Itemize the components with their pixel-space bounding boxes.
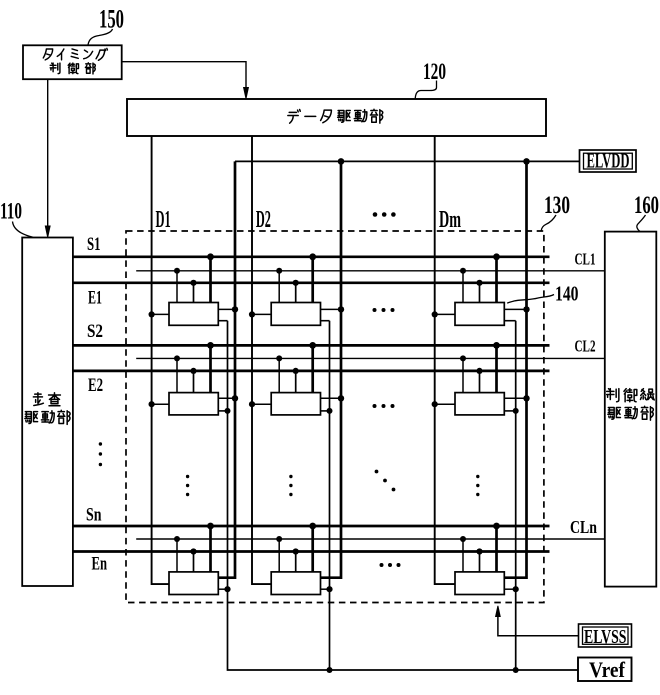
wire pixel 2m to Vref line xyxy=(504,410,515,412)
node pixel n1 on Vref line xyxy=(224,586,230,592)
wire pixel 12 to CL xyxy=(278,271,280,303)
wire pixel 1m to data line xyxy=(435,313,455,315)
vertical ellipsis scan rows xyxy=(99,442,102,466)
text seigyobu (control part) xyxy=(50,63,95,74)
text taimingu (timing) xyxy=(43,48,107,60)
node pixel 1m on CL xyxy=(460,268,466,274)
wire pixel n2 to Vref line xyxy=(321,588,330,590)
ELVDD power line column 2 xyxy=(321,161,342,577)
pixel circuit pixel 1m box xyxy=(455,303,504,326)
svg-text:Dm: Dm xyxy=(439,207,461,233)
svg-text:D2: D2 xyxy=(256,207,271,233)
wire pixel 21 to ELVDD line xyxy=(218,397,235,399)
node pixel 21 on Vref line xyxy=(225,408,231,414)
wire pixel 1m to CL xyxy=(462,271,464,303)
ellipsis pixels row 1 xyxy=(373,308,395,312)
wire pixel n2 to S line xyxy=(311,526,314,572)
arrowhead into scan driver xyxy=(45,226,50,237)
wire pixel 12 to S line xyxy=(311,257,314,303)
wire pixel n1 to Vref line xyxy=(218,588,227,590)
wire pixel 21 to CL xyxy=(176,358,178,392)
wire pixel nm to Vref line xyxy=(504,588,515,590)
scan line S2 xyxy=(73,344,550,347)
pixel array dashed box 130 xyxy=(126,231,544,603)
wire pixel 2m to ELVDD line xyxy=(504,397,526,399)
node pixel 2m on ELVDD line xyxy=(523,395,529,401)
svg-text:E1: E1 xyxy=(88,288,102,309)
node pixel 22 on CL xyxy=(276,355,282,361)
svg-text:ELVSS: ELVSS xyxy=(584,626,627,648)
ellipsis between D2 and Dm xyxy=(373,212,396,217)
node pixel 21 on CL xyxy=(174,355,180,361)
leader for 160 xyxy=(637,215,646,231)
node pixel 1m on S line xyxy=(493,253,500,260)
wire pixel n2 to E line xyxy=(295,552,297,572)
node pixel nm on E line xyxy=(476,548,482,554)
wire pixel 11 to S line xyxy=(209,257,212,303)
emission line E1 xyxy=(73,281,550,284)
ELVDD power line column m xyxy=(504,161,526,577)
wire pixel 22 to data line xyxy=(252,403,271,405)
wire pixel 2m to data line xyxy=(435,403,455,405)
leader for 150 xyxy=(88,29,113,45)
node pixel n1 on S line xyxy=(207,523,214,530)
wire pixel 1m to Vref line xyxy=(504,320,515,322)
diagonal ellipsis center xyxy=(375,470,396,492)
node pixel 21 on S line xyxy=(207,342,214,349)
pixel circuit pixel 12 box xyxy=(271,303,320,326)
wire pixel 22 to S line xyxy=(311,345,314,392)
Vref supply box xyxy=(578,658,632,682)
data line D1 xyxy=(152,136,169,584)
wire pixel 11 to CL xyxy=(176,271,178,303)
wire pixel 22 to Vref line xyxy=(321,410,330,412)
block 160 control line driver box xyxy=(605,232,657,587)
emission line En xyxy=(73,550,550,553)
pixel circuit pixel 22 box xyxy=(271,393,320,415)
leader for 110 xyxy=(13,222,34,238)
wire pixel 11 to ELVDD line xyxy=(218,308,235,310)
text sousa (scan) xyxy=(33,393,60,406)
node pixel 11 on data line xyxy=(149,311,155,317)
wire pixel 21 to Vref line xyxy=(218,410,227,412)
ELVDD supply box outer xyxy=(580,150,637,172)
wire pixel 2m to S line xyxy=(495,345,498,392)
block 110 scan driver box xyxy=(22,238,73,587)
node pixel n2 on CL xyxy=(276,536,282,542)
wire pixel 12 to ELVDD line xyxy=(321,308,342,310)
Vref line column 1 xyxy=(228,321,579,670)
svg-text:140: 140 xyxy=(555,282,579,306)
node pixel nm on CL xyxy=(460,536,466,542)
svg-text:E2: E2 xyxy=(88,375,103,396)
svg-text:En: En xyxy=(92,554,108,575)
ELVDD power line column 1 xyxy=(218,161,235,577)
text kudoubu of control line driver xyxy=(608,406,653,420)
svg-text:150: 150 xyxy=(99,5,124,34)
node pixel 2m on E line xyxy=(476,368,482,374)
wire pixel 11 to data line xyxy=(152,313,169,315)
node pixel 21 on E line xyxy=(190,368,196,374)
svg-text:110: 110 xyxy=(0,199,22,224)
node pixel 12 on ELVDD line xyxy=(338,306,344,312)
wire pixel n1 to E line xyxy=(193,552,195,572)
svg-text:S2: S2 xyxy=(87,321,103,342)
text data kudoubu (data driver) xyxy=(288,109,383,123)
scan line S1 xyxy=(73,255,550,258)
vertical ellipsis column m xyxy=(476,475,479,496)
node pixel 1m on data line xyxy=(432,311,438,317)
node pixel n2 on S line xyxy=(309,523,316,530)
pixel circuit pixel 2m box xyxy=(455,393,504,415)
svg-text:D1: D1 xyxy=(156,207,171,233)
svg-text:S1: S1 xyxy=(87,234,101,255)
svg-text:120: 120 xyxy=(423,59,446,84)
wire timing to scan driver xyxy=(47,79,49,226)
pixel circuit pixel 21 box xyxy=(169,393,218,415)
wire pixel 21 to data line xyxy=(152,403,169,405)
node pixel 22 on data line xyxy=(249,401,255,407)
arrowhead into data driver xyxy=(244,88,249,99)
wire pixel 22 to E line xyxy=(295,371,297,393)
ELVSS supply box outer xyxy=(579,624,632,647)
wire pixel nm to E line xyxy=(479,552,481,572)
wire pixel 12 to Vref line xyxy=(321,320,330,322)
svg-text:CL2: CL2 xyxy=(575,336,596,355)
wire pixel n1 to CL xyxy=(176,539,178,572)
node pixel nm on S line xyxy=(493,523,500,530)
node pixel 2m on S line xyxy=(493,342,500,349)
node pixel 22 on E line xyxy=(293,368,299,374)
svg-text:Vref: Vref xyxy=(589,657,626,682)
vertical ellipsis column 1 xyxy=(186,475,189,496)
svg-text:CL1: CL1 xyxy=(575,250,596,269)
ELVSS supply box inner xyxy=(583,627,629,644)
wire pixel 12 to data line xyxy=(252,313,271,315)
node pixel 22 on ELVDD line xyxy=(338,395,344,401)
svg-text:130: 130 xyxy=(544,192,570,219)
svg-text:CLn: CLn xyxy=(570,517,597,537)
node pixel n2 on Vref line xyxy=(326,586,332,592)
data line Dm xyxy=(435,136,455,584)
node pixel 12 on S line xyxy=(309,253,316,260)
wire pixel nm to CL xyxy=(462,539,464,572)
ELVDD supply box inner xyxy=(584,153,633,169)
ellipsis pixels row 2 xyxy=(373,404,395,408)
wire pixel 21 to S line xyxy=(209,345,212,392)
block 150 timing controller box xyxy=(23,45,122,79)
wire pixel 11 to E line xyxy=(193,283,195,303)
svg-text:160: 160 xyxy=(634,192,659,219)
ellipsis pixels row n xyxy=(380,563,401,567)
pixel circuit pixel nm box xyxy=(455,572,504,595)
ELVSS wire with elbow xyxy=(498,617,579,636)
pixel circuit pixel n2 box xyxy=(271,572,320,595)
node pixel 11 on ELVDD line xyxy=(232,306,238,312)
text kudoubu (driver part) xyxy=(25,410,70,424)
text seigyosen (control line) xyxy=(607,389,655,402)
node pixel 2m on CL xyxy=(460,355,466,361)
data line D2 xyxy=(252,136,271,584)
junction dots on Vref rail xyxy=(327,667,519,673)
pixel circuit pixel 11 box xyxy=(169,303,218,326)
wire pixel 11 to Vref line xyxy=(218,320,227,322)
node pixel 22 on S line xyxy=(309,342,316,349)
node pixel 12 on CL xyxy=(276,268,282,274)
ELVDD rail xyxy=(235,160,580,162)
emission line E2 xyxy=(73,370,550,373)
wire pixel 12 to E line xyxy=(295,283,297,303)
Vref line column m xyxy=(515,321,517,670)
wire pixel 1m to S line xyxy=(495,257,498,303)
svg-text:Sn: Sn xyxy=(86,505,102,526)
node pixel 1m on ELVDD line xyxy=(523,306,529,312)
wire pixel n1 to S line xyxy=(209,526,212,572)
Vref line column 2 xyxy=(329,321,331,670)
control line CL2 xyxy=(136,357,605,359)
wire pixel 1m to E line xyxy=(479,283,481,303)
node pixel n1 on E line xyxy=(190,548,196,554)
node pixel n2 on E line xyxy=(293,548,299,554)
wire pixel nm to S line xyxy=(495,526,498,572)
node pixel 2m on Vref line xyxy=(513,408,519,414)
node pixel n1 on CL xyxy=(174,536,180,542)
scan line Sn xyxy=(73,525,550,528)
vertical ellipsis column 2 xyxy=(289,475,292,496)
pixel circuit pixel n1 box xyxy=(169,572,218,595)
node pixel 2m on data line xyxy=(432,401,438,407)
wire pixel 2m to CL xyxy=(462,358,464,392)
node pixel 21 on data line xyxy=(149,401,155,407)
wire pixel 22 to CL xyxy=(278,358,280,392)
svg-text:ELVDD: ELVDD xyxy=(587,149,630,173)
block 120 data driver box xyxy=(127,99,546,136)
wire pixel 2m to E line xyxy=(479,371,481,393)
node pixel 1m on E line xyxy=(476,280,482,286)
control line CL1 xyxy=(136,270,605,272)
leader for 140 xyxy=(507,295,554,304)
node pixel nm on Vref line xyxy=(513,586,519,592)
arrowhead ELVSS to panel xyxy=(496,606,501,617)
junction dots on ELVDD rail xyxy=(338,158,530,165)
wire pixel 22 to ELVDD line xyxy=(321,397,342,399)
wire pixel n2 to CL xyxy=(278,539,280,572)
node pixel 22 on Vref line xyxy=(327,408,333,414)
leader for 130 xyxy=(541,215,556,231)
leader for 120 xyxy=(415,81,436,99)
wire timing to data driver xyxy=(122,62,246,88)
node pixel 11 on E line xyxy=(190,280,196,286)
node pixel 12 on E line xyxy=(293,280,299,286)
control line CLn xyxy=(136,538,605,540)
node pixel 11 on S line xyxy=(207,253,214,260)
wire pixel 1m to ELVDD line xyxy=(504,308,526,310)
wire pixel 21 to E line xyxy=(193,371,195,393)
node pixel 21 on ELVDD line xyxy=(232,395,238,401)
node pixel 11 on CL xyxy=(174,268,180,274)
node pixel 12 on data line xyxy=(249,311,255,317)
